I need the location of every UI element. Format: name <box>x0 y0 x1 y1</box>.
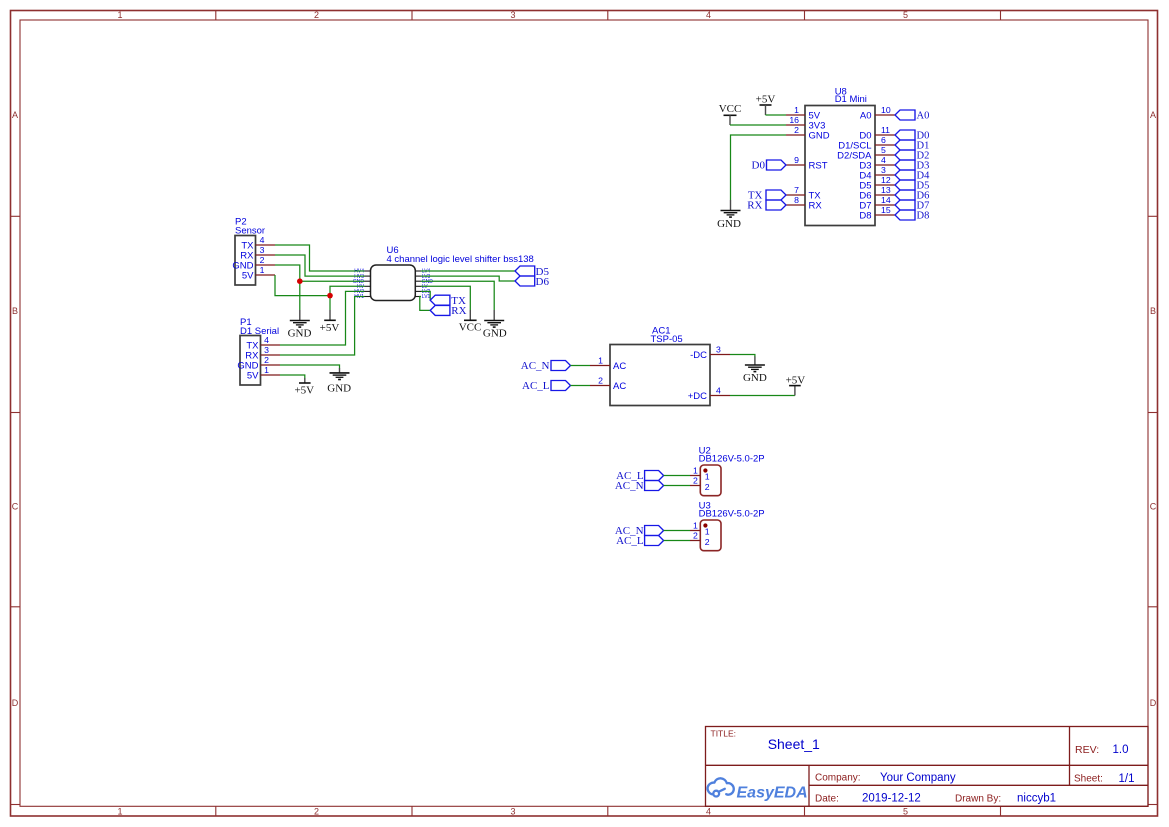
svg-text:Sheet:: Sheet: <box>1074 774 1103 785</box>
svg-text:3: 3 <box>260 245 265 255</box>
svg-text:1: 1 <box>264 365 269 375</box>
svg-text:GND: GND <box>743 372 767 384</box>
svg-text:AC_L: AC_L <box>616 535 644 547</box>
svg-text:3: 3 <box>510 10 515 20</box>
svg-text:2: 2 <box>705 537 710 547</box>
svg-text:GND: GND <box>717 218 741 230</box>
svg-text:VCC: VCC <box>719 103 742 115</box>
svg-text:HV1: HV1 <box>354 294 364 300</box>
svg-text:2: 2 <box>693 476 698 486</box>
svg-text:AC_N: AC_N <box>615 480 644 492</box>
svg-text:4: 4 <box>264 335 269 345</box>
svg-text:5V: 5V <box>242 271 254 282</box>
svg-text:7: 7 <box>794 185 799 195</box>
svg-text:3: 3 <box>881 165 886 175</box>
svg-text:1: 1 <box>260 265 265 275</box>
svg-text:4: 4 <box>706 10 711 20</box>
svg-text:VCC: VCC <box>459 322 482 334</box>
svg-text:12: 12 <box>881 175 891 185</box>
svg-text:11: 11 <box>881 125 890 135</box>
svg-text:1: 1 <box>693 521 698 531</box>
svg-text:4: 4 <box>706 807 711 817</box>
svg-text:RX: RX <box>747 200 762 212</box>
svg-text:AC: AC <box>613 381 626 392</box>
svg-text:1: 1 <box>117 807 122 817</box>
svg-text:1: 1 <box>598 355 603 365</box>
svg-text:RST: RST <box>809 161 828 172</box>
svg-text:REV:: REV: <box>1075 744 1099 756</box>
svg-text:2: 2 <box>314 807 319 817</box>
svg-text:AC: AC <box>613 361 626 372</box>
svg-text:13: 13 <box>881 185 891 195</box>
svg-text:16: 16 <box>789 115 799 125</box>
svg-text:+5V: +5V <box>294 385 314 397</box>
svg-text:GND: GND <box>327 382 351 394</box>
svg-text:A: A <box>12 110 18 120</box>
svg-text:8: 8 <box>794 195 799 205</box>
svg-text:Company:: Company: <box>815 773 861 784</box>
svg-text:5: 5 <box>903 807 908 817</box>
svg-text:14: 14 <box>881 195 891 205</box>
svg-text:3: 3 <box>264 345 269 355</box>
svg-text:2: 2 <box>794 125 799 135</box>
svg-text:10: 10 <box>881 105 891 115</box>
svg-text:5V: 5V <box>247 371 259 382</box>
svg-text:-DC: -DC <box>690 350 707 361</box>
svg-text:2: 2 <box>260 255 265 265</box>
svg-text:2: 2 <box>705 482 710 492</box>
svg-text:4: 4 <box>716 385 721 395</box>
svg-text:3: 3 <box>510 807 515 817</box>
svg-text:C: C <box>1150 502 1157 512</box>
svg-text:4 channel logic level shifter: 4 channel logic level shifter bss138 <box>387 254 534 265</box>
svg-text:GND: GND <box>809 131 830 142</box>
svg-text:+DC: +DC <box>688 391 707 402</box>
svg-text:Drawn By:: Drawn By: <box>955 794 1001 805</box>
svg-text:2: 2 <box>598 375 603 385</box>
svg-text:3: 3 <box>716 344 721 354</box>
svg-text:DB126V-5.0-2P: DB126V-5.0-2P <box>699 454 765 465</box>
svg-text:B: B <box>12 306 18 316</box>
svg-text:15: 15 <box>881 205 891 215</box>
svg-text:6: 6 <box>881 135 886 145</box>
svg-text:A: A <box>1150 110 1156 120</box>
svg-text:2: 2 <box>693 531 698 541</box>
svg-text:2: 2 <box>264 355 269 365</box>
svg-text:1: 1 <box>117 10 122 20</box>
svg-text:D: D <box>12 698 19 708</box>
svg-text:1: 1 <box>794 105 799 115</box>
svg-text:1.0: 1.0 <box>1113 744 1129 756</box>
svg-text:D6: D6 <box>536 276 550 288</box>
svg-text:1: 1 <box>705 527 710 537</box>
svg-text:D1 Mini: D1 Mini <box>835 94 867 105</box>
svg-text:+5V: +5V <box>320 322 340 334</box>
svg-text:1/1: 1/1 <box>1119 773 1135 785</box>
svg-text:1: 1 <box>693 466 698 476</box>
svg-text:niccyb1: niccyb1 <box>1017 793 1056 805</box>
svg-text:TITLE:: TITLE: <box>711 729 737 739</box>
svg-text:D0: D0 <box>752 160 766 172</box>
svg-text:+5V: +5V <box>756 94 776 106</box>
svg-text:RX: RX <box>809 201 823 212</box>
svg-text:5: 5 <box>881 145 886 155</box>
svg-text:9: 9 <box>794 155 799 165</box>
svg-text:GND: GND <box>483 328 507 340</box>
svg-text:B: B <box>1150 306 1156 316</box>
svg-text:DB126V-5.0-2P: DB126V-5.0-2P <box>699 509 765 520</box>
svg-text:4: 4 <box>260 235 265 245</box>
svg-text:RX: RX <box>451 305 466 317</box>
svg-text:D8: D8 <box>917 211 930 222</box>
svg-text:EasyEDA: EasyEDA <box>737 785 808 802</box>
svg-text:GND: GND <box>288 328 312 340</box>
svg-text:AC_N: AC_N <box>521 360 550 372</box>
svg-text:C: C <box>12 502 19 512</box>
svg-text:D: D <box>1150 698 1157 708</box>
svg-text:D8: D8 <box>859 211 871 222</box>
svg-text:2019-12-12: 2019-12-12 <box>862 793 921 805</box>
svg-text:Sheet_1: Sheet_1 <box>768 736 820 752</box>
svg-text:4: 4 <box>881 155 886 165</box>
svg-text:TSP-05: TSP-05 <box>651 334 683 345</box>
svg-text:+5V: +5V <box>786 374 806 386</box>
svg-text:A0: A0 <box>917 111 930 122</box>
svg-text:5: 5 <box>903 10 908 20</box>
svg-text:LV1: LV1 <box>422 294 431 300</box>
svg-text:Your Company: Your Company <box>880 772 956 784</box>
svg-text:AC_L: AC_L <box>522 380 550 392</box>
svg-text:A0: A0 <box>860 111 872 122</box>
svg-text:2: 2 <box>314 10 319 20</box>
svg-text:Date:: Date: <box>815 794 839 805</box>
svg-text:1: 1 <box>705 472 710 482</box>
